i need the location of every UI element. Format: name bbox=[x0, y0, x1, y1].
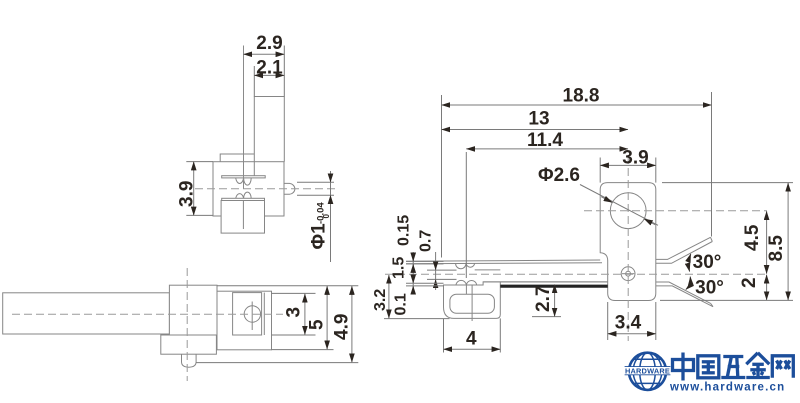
svg-text:0.15: 0.15 bbox=[396, 215, 413, 246]
upper contact dips bbox=[456, 263, 475, 269]
pivot rivet tick bbox=[622, 273, 634, 275]
dim 3.2 bbox=[388, 275, 390, 318]
label 0.1 bbox=[393, 293, 410, 315]
bottom bracket bbox=[161, 335, 217, 354]
terminal base bbox=[444, 282, 608, 319]
hole phi2.6 bbox=[610, 193, 646, 229]
housing bbox=[217, 291, 272, 350]
dim 2.7 bbox=[554, 284, 556, 316]
ext 3.2 bottom bbox=[384, 318, 450, 320]
angle arc lower 30 bbox=[686, 277, 691, 290]
svg-text:0.1: 0.1 bbox=[393, 293, 410, 315]
dim phi1 lower arrow bbox=[330, 195, 332, 207]
svg-text:13: 13 bbox=[528, 109, 549, 130]
dim 4.5 bbox=[766, 211, 768, 274]
label 0.7 bbox=[418, 230, 435, 252]
ext 0.15 top bbox=[406, 260, 444, 262]
label phi1 tolerance bbox=[309, 223, 330, 250]
svg-text:www.hardware.cn: www.hardware.cn bbox=[669, 382, 785, 394]
ext pin bottom bbox=[297, 194, 334, 196]
dim 18.8 bbox=[442, 104, 712, 106]
svg-text:3: 3 bbox=[284, 307, 305, 318]
dim 5 bbox=[326, 286, 328, 349]
lower fork tab upper edge bbox=[656, 282, 711, 303]
globe latitude lower bbox=[634, 382, 662, 384]
ext 8.5 top bbox=[662, 182, 793, 184]
svg-text:HARDWARE: HARDWARE bbox=[625, 367, 670, 376]
dim 2 bbox=[766, 275, 768, 300]
fixed strip top edge bbox=[483, 281, 608, 283]
label 2.7 bbox=[533, 286, 554, 312]
dim line 0.7 bbox=[435, 252, 437, 290]
bracket plate outline bbox=[600, 183, 656, 301]
dim 3.9 plate bbox=[600, 164, 656, 166]
svg-text:2.7: 2.7 bbox=[533, 286, 554, 312]
dim 2.1 bbox=[254, 74, 284, 76]
plate centerline vertical bbox=[627, 156, 629, 341]
dim 3.9 left view bbox=[193, 162, 195, 216]
ext 3.4 right bbox=[655, 302, 657, 340]
ext 18.8/13 left bbox=[441, 95, 443, 258]
svg-text:4.9: 4.9 bbox=[332, 314, 353, 340]
screw slot bbox=[251, 302, 253, 331]
dim 13 bbox=[442, 129, 629, 131]
hanzi jin bbox=[746, 353, 769, 364]
ext 0.15 bottom bbox=[406, 263, 444, 265]
label 3 bottom view bbox=[284, 307, 305, 318]
arrow 1.5 top bbox=[412, 264, 414, 271]
nut bbox=[182, 354, 197, 367]
arrow 0.1 bottom bbox=[412, 286, 414, 293]
screw head circle bbox=[244, 306, 260, 322]
step bracket bbox=[220, 154, 254, 162]
svg-text:2.9: 2.9 bbox=[256, 33, 282, 54]
ext 3.4 left bbox=[607, 302, 609, 340]
lower contact bumps bbox=[236, 192, 252, 198]
ext 0.7 bottom bbox=[427, 278, 457, 280]
label 8.5 bbox=[766, 235, 787, 262]
phi2.6 arrow lower bbox=[644, 219, 655, 225]
arrow 0.7 bottom bbox=[435, 280, 437, 288]
hole centerline horizontal bbox=[584, 210, 767, 212]
ext 2.1 left bbox=[253, 66, 255, 97]
lower terminal block bbox=[221, 201, 264, 234]
lower fork tab lower edge bbox=[656, 286, 713, 307]
svg-text:3.9: 3.9 bbox=[177, 181, 198, 207]
ext 2.9/2.1 right bbox=[283, 46, 285, 97]
hanzi guo bbox=[698, 356, 719, 378]
clamp block bbox=[169, 285, 217, 335]
svg-text:0.7: 0.7 bbox=[418, 230, 435, 252]
svg-text:2.1: 2.1 bbox=[256, 58, 283, 79]
svg-text:1.5: 1.5 bbox=[391, 257, 408, 279]
dim 11.4 bbox=[466, 148, 628, 150]
centerline top-left view bbox=[195, 188, 337, 190]
upper fork tab lower edge bbox=[656, 242, 713, 264]
svg-text:30°: 30° bbox=[693, 252, 722, 273]
svg-text:3.4: 3.4 bbox=[615, 313, 642, 334]
ext 3 bottom / bracket top bbox=[272, 334, 316, 336]
phi2.6 arrow upper bbox=[601, 197, 612, 203]
dim 8.5 bbox=[787, 183, 789, 300]
actuator shaft bbox=[3, 293, 170, 334]
label 5 bottom view bbox=[307, 319, 328, 330]
ext 2.7 bottom bbox=[532, 316, 561, 318]
svg-text:30°: 30° bbox=[695, 278, 724, 299]
screw box inner line bbox=[263, 293, 265, 335]
ext 3.9 plate right bbox=[655, 158, 657, 183]
dim 4 bbox=[444, 348, 501, 350]
lower tab tip bbox=[711, 303, 713, 306]
thick contact strip bbox=[500, 285, 607, 288]
dim phi1 line bbox=[330, 171, 332, 262]
ext 4.9 bottom bbox=[196, 362, 358, 364]
label 1.5 bbox=[391, 257, 408, 279]
svg-text:-0.04: -0.04 bbox=[316, 202, 327, 224]
pivot rivet inner bbox=[626, 271, 631, 276]
label 3.9 left view bbox=[177, 181, 198, 207]
label 3.2 bbox=[372, 289, 389, 311]
ext 0.1 lines bbox=[406, 282, 444, 284]
dim 3 bbox=[304, 294, 306, 335]
side pin bbox=[284, 183, 295, 194]
upper fork tab upper edge bbox=[656, 237, 711, 259]
svg-text:11.4: 11.4 bbox=[527, 130, 563, 151]
lower contact bar bbox=[222, 198, 265, 200]
contact surface line bbox=[475, 269, 501, 271]
svg-text:0: 0 bbox=[322, 214, 331, 219]
label 0.15 bbox=[396, 215, 413, 246]
globe latitude upper bbox=[634, 358, 662, 360]
hanzi zhong bbox=[681, 353, 684, 381]
plunger tower bbox=[254, 97, 284, 176]
ext 3 top bbox=[272, 292, 316, 294]
upper contact bumps bbox=[236, 178, 252, 185]
phi2.6 leader bbox=[580, 185, 658, 226]
globe meridian narrow bbox=[640, 353, 656, 390]
globe outer bbox=[629, 353, 666, 390]
ext 18.8 right bbox=[711, 92, 713, 237]
centerline bottom-left view bbox=[12, 313, 283, 315]
ext 11.4 left / contact axis bbox=[465, 152, 467, 278]
arrow 0.7 top bbox=[435, 263, 437, 271]
rivet center / 2.9 extension line bbox=[243, 46, 245, 189]
rivet stem right bbox=[471, 285, 473, 321]
ext 4 left bbox=[443, 319, 445, 353]
screw box bbox=[233, 293, 262, 335]
upper contact bar bbox=[222, 176, 266, 178]
rivet axis lower block bbox=[242, 201, 244, 230]
dim 2.9 bbox=[244, 53, 285, 55]
moving blade bottom edge bbox=[406, 263, 602, 264]
vertical centerline block bbox=[186, 268, 188, 381]
ext 8.5/2 bottom bbox=[660, 299, 793, 301]
svg-text:Φ1: Φ1 bbox=[309, 223, 330, 250]
label 4.5 bbox=[742, 224, 763, 251]
svg-text:18.8: 18.8 bbox=[563, 86, 600, 107]
svg-text:3.2: 3.2 bbox=[372, 289, 389, 311]
globe band bbox=[625, 367, 671, 375]
ext pin top bbox=[297, 181, 334, 183]
ext 3.9 plate left bbox=[599, 158, 601, 183]
moving blade top edge bbox=[406, 260, 600, 261]
ext 0.7 top bbox=[427, 269, 457, 271]
ext 5 bottom bbox=[272, 349, 334, 351]
angle arc upper 30 bbox=[689, 254, 691, 272]
svg-text:4: 4 bbox=[466, 329, 477, 350]
pivot rivet outer bbox=[621, 267, 635, 281]
switch body bbox=[213, 162, 284, 216]
hanzi wang bbox=[772, 356, 793, 378]
label 2 bbox=[739, 277, 760, 288]
terminal loop slot bbox=[450, 294, 495, 313]
main centerline bbox=[385, 273, 767, 275]
ext 4 right bbox=[499, 318, 501, 352]
dim phi1 upper arrow bbox=[330, 171, 332, 182]
hanzi wu bbox=[723, 355, 743, 358]
ext 3.9 bottom bbox=[186, 214, 213, 216]
rivet stem left bbox=[465, 285, 467, 294]
label 4.9 bottom view bbox=[332, 314, 353, 340]
ext 5/4.9 top bbox=[217, 285, 358, 287]
svg-text:Φ2.6: Φ2.6 bbox=[538, 165, 580, 186]
arrow 0.15 top bbox=[412, 254, 414, 262]
svg-text:2: 2 bbox=[739, 277, 760, 288]
arrow 1.5 bottom bbox=[412, 276, 414, 283]
dim line small stack bbox=[412, 252, 414, 292]
upper tab tip bbox=[711, 237, 713, 241]
globe meridian wide bbox=[633, 353, 662, 390]
dim 4.9 bbox=[351, 286, 353, 362]
lower contact bumps bbox=[456, 280, 477, 285]
svg-text:8.5: 8.5 bbox=[766, 235, 787, 262]
ext 3.9 top bbox=[186, 161, 213, 163]
svg-text:3.9: 3.9 bbox=[622, 148, 648, 169]
dim 3.4 bbox=[608, 333, 656, 335]
svg-text:5: 5 bbox=[307, 319, 328, 330]
svg-text:4.5: 4.5 bbox=[742, 224, 763, 251]
